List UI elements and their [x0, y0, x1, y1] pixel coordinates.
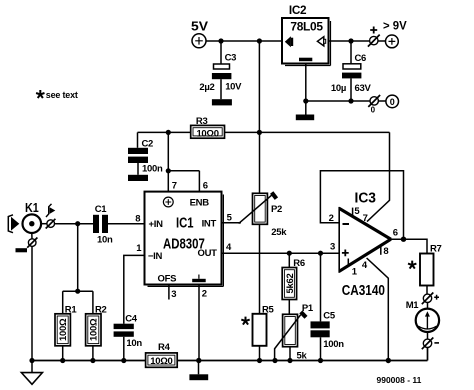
capacitor C6: [331, 41, 372, 101]
svg-text:25k: 25k: [271, 227, 287, 238]
wire IC1 supply pins 7 and 6: [168, 132, 199, 191]
svg-text:8: 8: [135, 214, 140, 225]
wire IC3 pin7 supply: [367, 132, 390, 221]
node junction output/feedback: [401, 237, 406, 242]
resistor R2: [86, 304, 107, 360]
asterisk see-text note: [36, 90, 78, 100]
node junction R1R2 tap: [75, 221, 80, 226]
node junction rail R2: [90, 358, 95, 363]
svg-text:IC1: IC1: [176, 215, 194, 231]
resistor R4: [146, 342, 178, 367]
terminal plug K1 hot: [41, 219, 55, 229]
svg-text:see text: see text: [46, 90, 78, 100]
svg-text:6: 6: [203, 180, 208, 191]
node junction 5V/down: [257, 38, 262, 43]
svg-text:7: 7: [172, 181, 177, 192]
svg-text:4: 4: [362, 260, 368, 271]
regulator IC2 78L05: [282, 5, 331, 66]
capacitor C3: [199, 41, 242, 99]
wire IC3 pin4 to ground rail: [367, 258, 389, 361]
potentiometer P1: [274, 303, 314, 361]
svg-text:10µ: 10µ: [331, 83, 346, 94]
svg-text:1: 1: [136, 243, 142, 254]
svg-text:C2: C2: [142, 138, 154, 149]
svg-text:10V: 10V: [225, 82, 242, 93]
resistor R1: [55, 304, 77, 360]
node junction rail P1 wiper: [272, 358, 277, 363]
plug arrow left of K1: [8, 215, 19, 233]
node junction rail C4: [121, 358, 126, 363]
potentiometer P2: [239, 132, 288, 313]
svg-text:2: 2: [329, 213, 334, 224]
ground bar below pin2 junction: [189, 361, 208, 381]
svg-text:1: 1: [352, 267, 358, 278]
resistor R7: [408, 243, 442, 294]
wire 5V down to mid rail: [258, 41, 260, 132]
capacitor C4: [114, 314, 143, 361]
wire IC3 feedback pin2: [320, 171, 403, 239]
svg-text:C6: C6: [355, 53, 367, 64]
svg-text:+IN: +IN: [149, 219, 164, 230]
svg-text:100Ω: 100Ω: [58, 318, 69, 341]
svg-text:OFS: OFS: [158, 273, 177, 284]
wire IC2 out: [329, 40, 370, 42]
svg-text:4: 4: [226, 242, 232, 253]
resistor R6: [282, 253, 305, 314]
wire K1 to C1: [55, 223, 94, 225]
svg-text:C4: C4: [125, 314, 138, 325]
wire 5V rail: [206, 40, 282, 42]
wire K1 shield to rail: [31, 246, 33, 360]
plug arrow above K1 hot terminal: [46, 204, 55, 217]
wire mid 5V rail: [138, 131, 390, 133]
ground symbol triangle: [21, 361, 42, 385]
node junction rail C5: [318, 358, 323, 363]
svg-text:3: 3: [330, 242, 335, 253]
svg-text:78L05: 78L05: [290, 22, 323, 34]
node junction R6 top: [287, 251, 292, 256]
svg-text:2: 2: [202, 289, 207, 300]
op-amp IC3 CA3140: [339, 191, 391, 300]
svg-text:7: 7: [363, 213, 368, 224]
capacitor C1: [93, 204, 113, 245]
meter M1: [406, 300, 439, 332]
svg-text:K1: K1: [25, 201, 39, 215]
svg-text:C3: C3: [225, 53, 237, 64]
node junction rail pin2: [196, 358, 201, 363]
svg-text:IC2: IC2: [289, 5, 306, 17]
node junction C6 top: [348, 38, 353, 43]
node junction P2 top: [257, 130, 262, 135]
svg-text:CA3140: CA3140: [342, 283, 385, 299]
wire IC1 pin2 to ground rail: [198, 285, 200, 361]
svg-text:990008 - 11: 990008 - 11: [377, 375, 422, 385]
node junction C2/R3: [166, 130, 171, 135]
svg-text:−IN: −IN: [148, 251, 163, 262]
svg-text:5: 5: [227, 212, 233, 223]
capacitor C5: [311, 253, 345, 360]
svg-text:10Ω0: 10Ω0: [196, 128, 218, 139]
wire IC2 ground: [306, 64, 370, 102]
node junction rail R1: [60, 358, 65, 363]
node junction pin7/pin6: [166, 168, 171, 173]
node junction rail R5: [257, 358, 262, 363]
pin 8 stub IC3: [380, 247, 382, 255]
svg-text:100n: 100n: [142, 164, 163, 175]
terminal 0V plug: [368, 95, 398, 115]
svg-text:C5: C5: [323, 311, 336, 322]
resistor R3: [191, 116, 225, 139]
wire IC1 pin3 stub: [168, 285, 170, 300]
ground bar below C3: [212, 99, 232, 105]
svg-text:C1: C1: [95, 204, 108, 215]
svg-text:63V: 63V: [355, 83, 372, 94]
svg-text:10n: 10n: [126, 338, 142, 349]
terminal plug M1 plus: [422, 293, 439, 305]
svg-text:3: 3: [171, 289, 176, 300]
wire IC1 pin5 to P2 wiper: [222, 222, 242, 224]
node junction rail P1: [287, 358, 292, 363]
pin 1 stub IC3: [347, 259, 349, 267]
node junction R1R2 split: [75, 289, 80, 294]
svg-text:OUT: OUT: [198, 248, 218, 259]
capacitor C2: [128, 132, 163, 174]
svg-text:> 9V: > 9V: [383, 18, 407, 32]
svg-text:8: 8: [383, 246, 388, 257]
svg-text:INT: INT: [202, 219, 217, 230]
node junction rail IC3 pin4: [386, 358, 391, 363]
svg-text:10Ω0: 10Ω0: [150, 356, 172, 367]
svg-text:0: 0: [390, 97, 395, 107]
5V supply terminal: [191, 18, 208, 47]
ground bar at K1 plug: [16, 248, 28, 252]
wire IC3 output pin6: [391, 239, 427, 253]
svg-text:5: 5: [354, 206, 360, 217]
node junction C5 top: [318, 251, 323, 256]
node junction IC2 gnd: [303, 98, 308, 103]
svg-text:5k62: 5k62: [285, 274, 296, 294]
svg-text:IC3: IC3: [355, 191, 377, 207]
wire IC1 pin4 to IC3 pin3: [222, 252, 340, 254]
wire ground rail bottom: [32, 348, 428, 361]
svg-text:0: 0: [371, 106, 376, 115]
pin 5 stub IC3: [352, 208, 354, 217]
ground bar below C2: [128, 175, 148, 181]
svg-text:ENB: ENB: [190, 197, 210, 208]
svg-text:R4: R4: [158, 342, 171, 353]
connector K1 BNC: [23, 201, 42, 233]
ground bar below IC2: [296, 101, 314, 120]
svg-text:100n: 100n: [323, 339, 344, 350]
svg-text:2µ2: 2µ2: [199, 82, 214, 93]
wire R1R2 branch: [63, 224, 93, 314]
svg-text:100Ω: 100Ω: [89, 318, 100, 341]
svg-text:10n: 10n: [97, 234, 113, 245]
svg-text:6: 6: [393, 227, 398, 238]
terminal plug M1 minus: [422, 332, 439, 349]
wire pin1 to C4: [124, 255, 145, 323]
svg-text:5V: 5V: [191, 18, 208, 33]
resistor R5: [241, 304, 274, 360]
svg-text:P2: P2: [271, 204, 282, 215]
op-amp log IC1 AD8307 box: [145, 192, 224, 287]
node junction 5V/C3: [218, 38, 223, 43]
svg-text:M1: M1: [406, 300, 420, 311]
node junction C6 bottom: [348, 98, 353, 103]
node junction rail K1: [29, 358, 34, 363]
terminal +9V plug: [368, 18, 407, 47]
wire C1 to pin8: [108, 223, 145, 225]
terminal plug K1 shield: [27, 233, 37, 248]
